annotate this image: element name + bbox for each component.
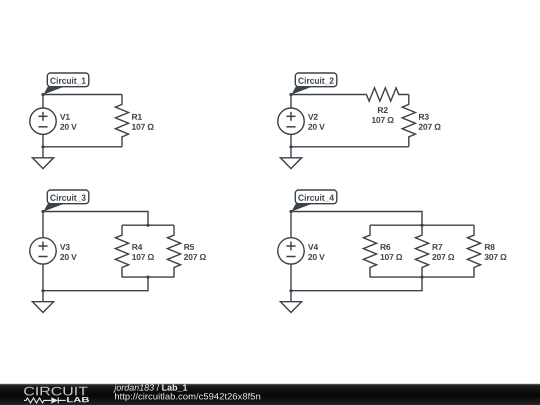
node C3 top-left: [41, 210, 44, 213]
logo diode: [51, 397, 58, 403]
node C4 bottom-left: [289, 289, 292, 292]
footer user: [113, 384, 154, 392]
footer separator: [157, 384, 160, 391]
callout Circuit_4: [292, 190, 337, 212]
wire C3 bottom: [43, 277, 148, 291]
label V3: [60, 244, 77, 260]
label V2: [308, 114, 325, 130]
node C4 top-left: [289, 210, 292, 213]
wire C3 upper rail: [122, 224, 174, 226]
label R4: [132, 244, 154, 260]
callout Circuit_2: [292, 73, 337, 95]
wire C1 bottom: [43, 146, 122, 148]
footer bar: [0, 384, 540, 405]
ground C1: [32, 147, 53, 169]
node C2 top: [289, 93, 292, 96]
resistor R7: [415, 225, 428, 277]
footer title: [162, 384, 187, 392]
callout Circuit_3: [44, 190, 89, 212]
node C4 junction top: [420, 224, 423, 227]
wire C4 lower rail: [370, 276, 474, 278]
ground C4: [280, 291, 301, 313]
resistor R6: [363, 225, 376, 277]
resistor R4: [115, 225, 128, 277]
resistor R5: [167, 225, 180, 277]
node C1 top: [41, 93, 44, 96]
label R5: [184, 244, 206, 260]
resistor R2: [357, 88, 409, 101]
wire C3 top: [43, 212, 148, 226]
label R1: [132, 114, 154, 130]
label R3: [419, 114, 441, 130]
voltage source V1: [30, 95, 56, 147]
ground C3: [32, 291, 53, 313]
label V1: [60, 114, 77, 130]
logo CIRCUIT: [24, 387, 87, 396]
logo zigzag wire: [24, 397, 66, 403]
wire C3 lower rail: [122, 276, 174, 278]
label R8: [485, 244, 507, 260]
node C3 junction top: [146, 224, 149, 227]
ground C2: [280, 147, 301, 169]
wire C4 top: [291, 212, 422, 226]
node C3 junction bottom: [146, 276, 149, 279]
wire C4 upper rail: [370, 224, 474, 226]
wire C2 bottom: [291, 146, 409, 148]
voltage source V2: [278, 95, 304, 147]
node C2 bottom: [289, 145, 292, 148]
resistor R1: [115, 95, 128, 147]
callout Circuit_1: [44, 73, 89, 95]
footer url: [115, 393, 260, 401]
logo LAB: [67, 397, 89, 402]
node C1 bottom: [41, 145, 44, 148]
label R6: [381, 244, 403, 260]
resistor R8: [467, 225, 480, 277]
node C4 junction bottom: [420, 276, 423, 279]
voltage source V4: [278, 212, 304, 291]
wire C2 top: [291, 94, 357, 96]
label V4: [308, 244, 325, 260]
node C3 bottom-left: [41, 289, 44, 292]
wire C1 top: [43, 94, 122, 96]
label R2: [372, 107, 394, 123]
wire C4 bottom: [291, 277, 422, 291]
voltage source V3: [30, 212, 56, 291]
label R7: [432, 244, 454, 260]
resistor R3: [402, 95, 415, 147]
